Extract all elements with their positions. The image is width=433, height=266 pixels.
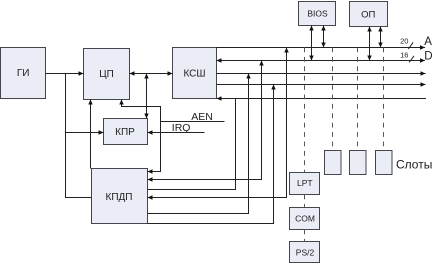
svg-text:КСШ: КСШ (183, 69, 205, 80)
svg-text:КПДП: КПДП (106, 192, 133, 203)
svg-text:D: D (424, 51, 432, 63)
svg-text:ГИ: ГИ (17, 68, 30, 79)
svg-text:16: 16 (400, 50, 408, 59)
svg-text:PS/2: PS/2 (296, 248, 315, 258)
svg-text:AEN: AEN (191, 111, 213, 123)
svg-text:IRQ: IRQ (172, 122, 191, 134)
svg-text:Слоты: Слоты (396, 158, 432, 172)
svg-text:ЦП: ЦП (99, 69, 114, 80)
svg-text:LPT: LPT (297, 178, 313, 188)
svg-text:КПР: КПР (115, 127, 135, 138)
svg-text:ОП: ОП (361, 10, 375, 21)
svg-text:20: 20 (400, 37, 408, 46)
svg-text:COM: COM (295, 214, 315, 224)
svg-text:A: A (424, 36, 432, 48)
svg-text:BIOS: BIOS (307, 9, 328, 19)
